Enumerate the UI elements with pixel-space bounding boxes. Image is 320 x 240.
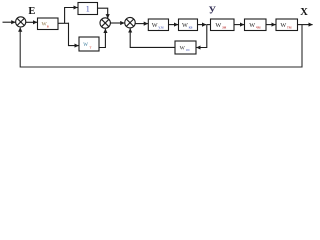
wire S1 to block W1 bbox=[26, 21, 37, 23]
svg-text:тм: тм bbox=[287, 25, 292, 30]
wire feedback tap down to Woc input bbox=[196, 25, 206, 48]
svg-text:W: W bbox=[215, 22, 221, 29]
wire Wkv to block Wzm with branch node y bbox=[198, 24, 207, 26]
wire block G1 output down into S2 top bbox=[98, 8, 108, 18]
svg-text:W: W bbox=[182, 22, 188, 29]
value label W1 bbox=[42, 22, 49, 29]
wire branch up to block G1 bbox=[65, 8, 78, 24]
block Wchm bbox=[245, 19, 267, 31]
svg-text:зм: зм bbox=[222, 25, 227, 30]
value label Wym bbox=[152, 22, 164, 30]
svg-text:У: У bbox=[209, 6, 217, 17]
wire block W2 output up into S2 bottom bbox=[99, 29, 105, 48]
svg-text:у.м: у.м bbox=[158, 25, 164, 30]
svg-text:ос: ос bbox=[186, 47, 190, 52]
wire output arrow X bbox=[298, 24, 313, 26]
wire branch down to block W2 bbox=[69, 23, 79, 46]
svg-text:1: 1 bbox=[86, 5, 90, 14]
block G1 bbox=[78, 3, 98, 15]
svg-text:W: W bbox=[249, 22, 255, 29]
wire block W1 output to branch node bbox=[58, 22, 69, 24]
block W2 bbox=[79, 37, 99, 51]
svg-text:кв: кв bbox=[189, 25, 193, 30]
value label Wtm bbox=[280, 22, 291, 30]
value label W2 bbox=[83, 43, 91, 49]
svg-text:W: W bbox=[83, 43, 88, 48]
block Wkv bbox=[179, 19, 198, 31]
svg-text:т: т bbox=[90, 44, 92, 49]
wire main feedback loop from output down left and up into S1 bottom bbox=[20, 25, 302, 67]
value label Wkv bbox=[182, 22, 193, 30]
wire Wym to Wkv bbox=[169, 24, 179, 26]
svg-text:W: W bbox=[152, 22, 158, 29]
block W1 bbox=[38, 18, 59, 30]
summing junction S2 bbox=[100, 18, 110, 28]
svg-text:E: E bbox=[28, 6, 35, 17]
summing junction S3 bbox=[125, 17, 136, 28]
svg-text:в: в bbox=[47, 23, 49, 28]
wire Wzm to Wchm bbox=[234, 24, 244, 26]
wire input arrow into summing junction S1 bbox=[3, 21, 16, 23]
svg-text:чм: чм bbox=[256, 25, 261, 30]
svg-text:X: X bbox=[300, 7, 308, 18]
value label Wzm bbox=[215, 22, 226, 30]
svg-text:W: W bbox=[280, 22, 286, 29]
block Wtm bbox=[276, 19, 298, 31]
wire Woc output left and up into S3 bottom bbox=[130, 28, 175, 47]
wire S3 to block Wym bbox=[135, 23, 148, 25]
wire Wchm to Wtm bbox=[267, 24, 276, 26]
wire S2 to S3 bbox=[110, 22, 124, 24]
block Woc bbox=[175, 41, 196, 54]
svg-text:W: W bbox=[180, 45, 186, 51]
summing junction S1 bbox=[16, 17, 26, 27]
value label Woc bbox=[180, 45, 190, 52]
block Wzm bbox=[211, 19, 235, 31]
block Wym bbox=[148, 19, 168, 31]
value label Wchm bbox=[249, 22, 261, 30]
